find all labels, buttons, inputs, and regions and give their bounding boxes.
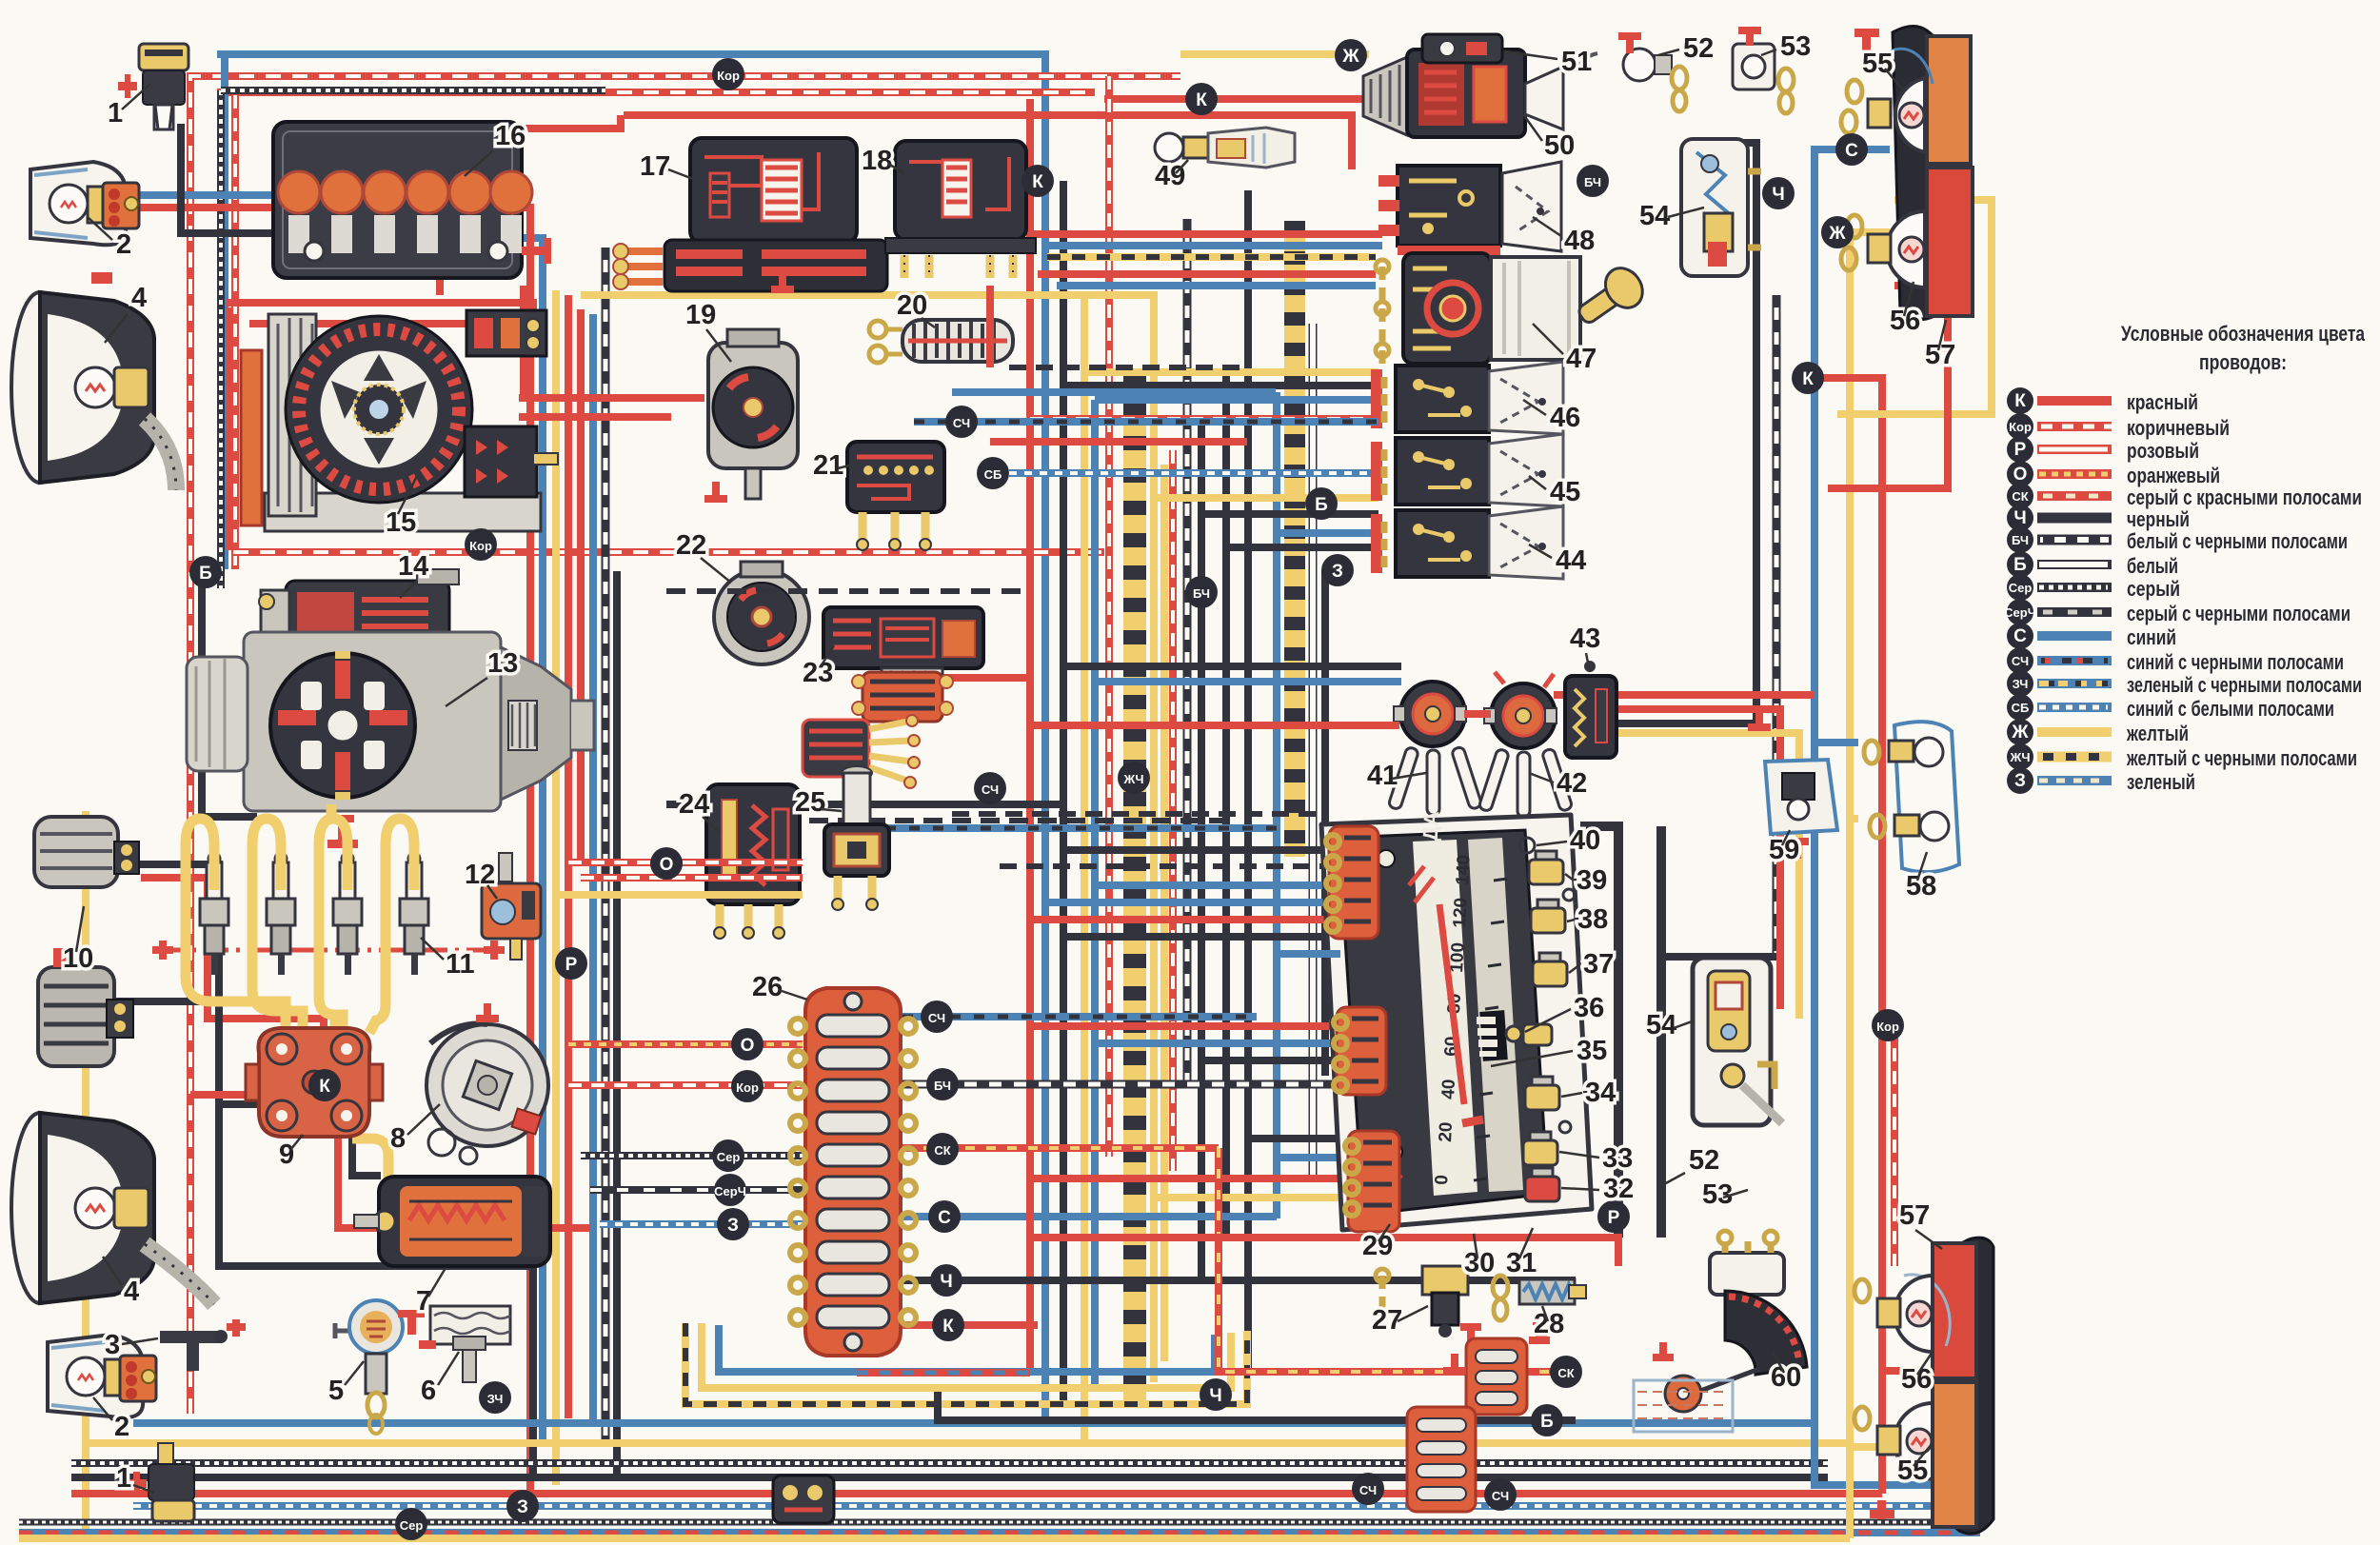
wire blue-black SCh y443: [914, 418, 1378, 426]
wire white-black center vertical: [1183, 219, 1192, 1085]
wire yellow-black U loop: [685, 1323, 1247, 1404]
side lamp 58: [1864, 722, 1959, 872]
svg-text:41: 41: [1367, 761, 1398, 791]
ground symbol top center: [771, 272, 794, 293]
node O center: [650, 847, 683, 880]
svg-text:22: 22: [676, 530, 706, 561]
wire white center vertical: [1309, 324, 1318, 1180]
wire cluster low bundle blue: [1277, 1154, 1340, 1161]
ground symbol cluster bottom: [1443, 1354, 1466, 1375]
svg-text:32: 32: [1603, 1174, 1634, 1204]
horn 10b: [38, 948, 133, 1066]
wire red mid-left vertical b: [565, 295, 572, 1418]
wire brown Kor horizontal: [568, 1081, 803, 1089]
svg-text:55: 55: [1897, 1456, 1928, 1486]
wire black bottom bus: [71, 1474, 1828, 1481]
wire red dash mid left b: [581, 874, 803, 881]
svg-text:44: 44: [1556, 545, 1586, 576]
node B center: [1305, 487, 1338, 520]
wire black right long vertical: [1618, 143, 1756, 723]
svg-text:красный: красный: [2127, 390, 2198, 414]
cluster connector stack middle: [1334, 1007, 1386, 1095]
svg-text:10: 10: [63, 943, 93, 974]
washer jet lamp 49: [1155, 128, 1295, 168]
svg-text:СК: СК: [2012, 489, 2028, 504]
distributor cap 9: [246, 1028, 383, 1137]
svg-text:СЧ: СЧ: [1359, 1483, 1377, 1497]
svg-text:120: 120: [1450, 898, 1472, 929]
svg-text:Ч: Ч: [2013, 508, 2026, 528]
svg-text:34: 34: [1585, 1078, 1616, 1108]
svg-text:Б: Б: [1315, 495, 1328, 515]
wire orange O horizontal: [568, 1040, 803, 1048]
wire red center vertical 1: [1026, 99, 1034, 1373]
bottom small connector: [773, 1476, 834, 1523]
svg-text:37: 37: [1583, 949, 1614, 980]
wire red from parking lamp to left long vertical: [124, 208, 530, 1494]
lamp 59: [1765, 760, 1837, 859]
svg-text:54: 54: [1639, 201, 1670, 231]
wire red generator frame: [226, 307, 233, 550]
svg-text:30: 30: [1464, 1248, 1495, 1278]
svg-text:20: 20: [1436, 1121, 1457, 1142]
svg-text:розовый: розовый: [2127, 439, 2199, 463]
wire yellow mid left: [556, 891, 803, 899]
wire yellow mid-left vertical: [552, 290, 560, 1485]
parking lamp 2 bottom: [48, 1335, 156, 1417]
wire red tail bottom feed: [1882, 1367, 1933, 1375]
svg-text:Ж: Ж: [1828, 224, 1846, 244]
svg-text:синий с белыми полосами: синий с белыми полосами: [2127, 697, 2334, 721]
wire red feed into relays 17: [519, 394, 704, 402]
svg-text:0: 0: [1432, 1175, 1453, 1186]
node BCh center: [1185, 576, 1218, 608]
wire yellow right staircase: [1837, 200, 1992, 414]
wire brown center vertical 2: [1169, 450, 1177, 1171]
wire red dash mid left a: [568, 859, 803, 866]
wire blue left vertical: [221, 57, 228, 569]
switch 44: [1371, 506, 1563, 579]
wiper motor 50 with switch 51: [1363, 34, 1563, 137]
fuel sender 60: [1634, 1231, 1807, 1432]
starter 13: [187, 632, 594, 848]
wire black horn run: [129, 864, 219, 1033]
wire red flasher feed: [1554, 691, 1815, 699]
svg-text:13: 13: [487, 648, 518, 679]
svg-text:З: З: [727, 1216, 739, 1236]
svg-text:желтый с черными полосами: желтый с черными полосами: [2126, 746, 2357, 770]
wire blue cluster bundle extra: [1277, 950, 1340, 958]
svg-text:Сер: Сер: [400, 1518, 424, 1533]
wire cluster left bundle black a: [1063, 846, 1340, 854]
svg-text:К: К: [319, 1077, 330, 1097]
wire harness layer: [86, 54, 1369, 1538]
svg-text:1: 1: [108, 98, 123, 129]
svg-text:53: 53: [1780, 31, 1811, 62]
svg-text:С: С: [2013, 626, 2027, 646]
wire yellow center vertical b: [581, 295, 1154, 1382]
wire black starter feed: [202, 571, 257, 817]
svg-text:4: 4: [124, 1277, 139, 1307]
wire blue center vertical 2: [1091, 400, 1099, 1390]
svg-text:57: 57: [1899, 1200, 1930, 1231]
svg-text:К: К: [1802, 369, 1814, 389]
svg-text:33: 33: [1602, 1143, 1633, 1174]
svg-text:50: 50: [1544, 130, 1575, 161]
switch 28: [1493, 1276, 1586, 1337]
wire yellow lamp58 feed: [1850, 815, 1858, 822]
wire black dash cluster top: [952, 811, 1328, 817]
wire black headlight bottom feed: [219, 1104, 533, 1477]
node Kor top: [712, 58, 744, 90]
relay 43: [1565, 661, 1616, 758]
wire yellow bottom bus b: [19, 1535, 1850, 1542]
wire yellow bottom bus a: [86, 1439, 1850, 1447]
ignition coil 7: [354, 1177, 550, 1266]
svg-text:ВОДА: ВОДА: [1417, 810, 1443, 872]
relay block bar under 17: [613, 240, 887, 291]
node SB center: [977, 457, 1009, 489]
svg-text:19: 19: [685, 300, 716, 330]
svg-text:58: 58: [1906, 871, 1936, 901]
body ground 6: [398, 1306, 510, 1382]
wire blue mid-left vertical: [589, 314, 597, 1423]
svg-text:7: 7: [416, 1286, 431, 1317]
svg-text:29: 29: [1362, 1231, 1393, 1261]
wire red headlight bottom feed: [190, 1095, 590, 1228]
wire blue top-right bundle b: [1057, 282, 1376, 289]
svg-text:З: З: [1332, 562, 1343, 582]
wire red right of flasher: [1464, 710, 1491, 718]
wire black mid-left vertical: [613, 571, 621, 1477]
wire black right of fuseblock: [902, 1277, 1576, 1284]
svg-text:21: 21: [813, 450, 843, 481]
svg-text:28: 28: [1534, 1309, 1564, 1339]
svg-text:55: 55: [1862, 49, 1893, 79]
legend row Ser: [2007, 574, 2180, 601]
svg-text:Сер: Сер: [2009, 581, 2033, 595]
HT lead starter stub: [327, 804, 337, 821]
wire gray crosshatch bottom bus: [19, 1519, 1980, 1526]
svg-text:К: К: [2014, 391, 2026, 411]
wire red feed pair: [519, 413, 671, 421]
svg-text:СК: СК: [1557, 1366, 1574, 1380]
HT lead plug2: [252, 819, 303, 1033]
wire brown center vertical: [1105, 76, 1113, 1157]
wire red relay17 drop: [520, 286, 527, 395]
relay 24: [706, 784, 800, 939]
heater motor 19: [708, 329, 798, 499]
svg-text:СЧ: СЧ: [953, 416, 970, 430]
svg-text:25: 25: [795, 787, 825, 818]
legend row Ch: [2007, 505, 2190, 531]
svg-text:Условные обозначения цвета: Условные обозначения цвета: [2121, 322, 2366, 346]
wire blue-black SCh right of fuseblock: [902, 1013, 1257, 1020]
horn button 5: [335, 1300, 403, 1434]
svg-text:40: 40: [1438, 1079, 1459, 1099]
svg-text:Ж: Ж: [2011, 723, 2029, 743]
wire gray hatch top horizontal: [221, 87, 605, 94]
cluster connector stack lower: [1345, 1131, 1399, 1232]
svg-text:Р: Р: [2014, 440, 2027, 460]
parking lamp 2 top: [30, 162, 139, 245]
svg-text:5: 5: [328, 1376, 344, 1406]
resistor 20: [869, 320, 1013, 363]
svg-text:1: 1: [116, 1463, 131, 1494]
headlight 4 top: [11, 272, 176, 490]
svg-text:С: С: [938, 1208, 951, 1228]
wire black relay bar to center: [666, 801, 1063, 808]
wire yellow U loop: [702, 1323, 1231, 1388]
wire yellow to switch stack: [1084, 368, 1378, 376]
wire gray hatch left vertical: [217, 90, 225, 588]
wire yellow right mid: [1576, 733, 1799, 1019]
wire yellow to switch stack b: [1154, 494, 1378, 502]
svg-text:оранжевый: оранжевый: [2127, 464, 2220, 487]
legend row ZCh: [2007, 670, 2362, 697]
svg-text:17: 17: [640, 151, 670, 182]
ignition switch 47: [1376, 253, 1650, 364]
relay 17: [690, 138, 857, 243]
svg-text:23: 23: [803, 658, 833, 688]
spark plugs 11: [152, 853, 505, 975]
wire brown second top run: [217, 89, 1095, 96]
wire red upper feed 2: [440, 115, 621, 295]
ground symbol near 28: [1529, 1325, 1550, 1344]
wire red dash to switch stack: [1030, 415, 1378, 423]
wire brown horizontal under generator: [233, 548, 1104, 556]
ground symbol near switch 25: [704, 482, 727, 503]
wire white-black right vertical: [1773, 295, 1781, 957]
svg-text:52: 52: [1683, 33, 1714, 64]
wire black center vertical 2: [1198, 419, 1205, 1280]
svg-text:51: 51: [1561, 47, 1592, 77]
wire color code badges layer: [189, 39, 1904, 1540]
bottom connector stack B: [1407, 1407, 1476, 1512]
svg-text:Кор: Кор: [736, 1080, 759, 1095]
svg-text:8: 8: [390, 1123, 406, 1154]
svg-text:БЧ: БЧ: [1584, 175, 1601, 189]
wire red flasher feed c: [1030, 722, 1399, 729]
svg-text:18: 18: [862, 146, 892, 176]
svg-text:СЧ: СЧ: [1492, 1489, 1509, 1503]
wire red sender feed: [1030, 1179, 1618, 1266]
svg-text:9: 9: [279, 1139, 294, 1170]
svg-text:серый с красными полосами: серый с красными полосами: [2127, 485, 2362, 509]
svg-text:О: О: [2013, 465, 2028, 485]
wire cluster left bundle black b: [1000, 863, 1340, 869]
door switch 54 bottom: [1693, 958, 1782, 1125]
svg-text:Ч: Ч: [940, 1272, 952, 1292]
turn flasher 41: [1388, 682, 1482, 828]
wire red y464: [990, 438, 1247, 446]
svg-text:35: 35: [1577, 1036, 1607, 1066]
wire black dash mid run: [724, 818, 1238, 823]
wire brown right vertical: [1891, 1025, 1898, 1266]
svg-text:зеленый с черными полосами: зеленый с черными полосами: [2127, 673, 2362, 697]
svg-text:БЧ: БЧ: [2012, 533, 2029, 547]
svg-text:С: С: [1845, 141, 1858, 161]
tail lamp bottom right: [1854, 1238, 1993, 1534]
node K fuseblock right: [932, 1309, 964, 1341]
svg-text:СК: СК: [934, 1143, 950, 1158]
svg-text:серый: серый: [2127, 577, 2180, 601]
wire black SK to bottom right: [1219, 1148, 1576, 1372]
wire cluster left bundle blue a: [1095, 881, 1340, 889]
wire blue to switch stack: [1095, 396, 1378, 404]
wire yellow-black dash top-right: [1047, 253, 1376, 261]
node K mid: [1021, 165, 1054, 197]
bottom connector stack A: [1466, 1338, 1527, 1415]
wire blue right of fuseblock: [902, 1213, 1277, 1220]
wire yellow center vertical: [1081, 291, 1088, 1443]
svg-text:синий: синий: [2127, 625, 2176, 649]
voltage regulator 23: [823, 607, 983, 687]
wire brown left pair vertical a: [231, 95, 239, 569]
wire red-blue dash bottom a: [857, 1369, 1030, 1377]
distributor 8: [426, 1003, 548, 1164]
wire cluster mid bundle red: [1030, 1022, 1340, 1030]
wire cluster mid bundle blue: [1095, 1040, 1340, 1047]
wire red relay18 drop: [986, 286, 994, 367]
svg-text:38: 38: [1577, 904, 1608, 935]
svg-text:Ч: Ч: [1209, 1386, 1221, 1406]
starter relay 14: [259, 569, 459, 664]
wire white-black BCh right of fuseblock: [902, 1080, 1333, 1089]
svg-text:ЖЧ: ЖЧ: [1122, 772, 1143, 786]
wire red right staircase: [1828, 286, 1948, 488]
wire blue from parking lamp stepped: [124, 195, 543, 1443]
svg-text:16: 16: [495, 121, 526, 151]
svg-text:36: 36: [1574, 993, 1604, 1023]
headlight 4 bottom: [11, 1113, 214, 1304]
node P right: [1597, 1200, 1630, 1233]
svg-text:11: 11: [446, 949, 475, 980]
svg-text:О: О: [660, 855, 674, 875]
node SCh bottom a: [1352, 1473, 1384, 1505]
legend row SerCh: [2004, 599, 2350, 625]
legend row K: [2007, 387, 2198, 414]
svg-text:СЧ: СЧ: [928, 1011, 945, 1025]
node Kor generator: [465, 528, 497, 561]
wire red right vertical: [1808, 378, 1882, 1494]
node Kor fuseblock: [731, 1070, 764, 1102]
wire cluster left bundle black c: [1063, 933, 1340, 941]
wire yellow tail bottom feed: [1850, 1443, 1933, 1451]
node Ch right: [1762, 177, 1795, 209]
svg-text:47: 47: [1566, 344, 1597, 374]
relay 18: [885, 141, 1036, 278]
svg-text:60: 60: [1771, 1362, 1801, 1393]
svg-text:Сер: Сер: [717, 1150, 741, 1164]
wire black to switch stack c: [1226, 544, 1378, 551]
wire red K right of fuseblock: [902, 1321, 1038, 1329]
svg-text:СБ: СБ: [2012, 701, 2030, 715]
wire red mid horizontals to cluster: [885, 674, 1030, 682]
svg-text:К: К: [1196, 90, 1207, 110]
svg-text:З: З: [517, 1497, 528, 1517]
lamp 53 top: [1733, 27, 1794, 113]
legend row P: [2007, 436, 2199, 463]
node SK fuseblock right: [926, 1133, 959, 1165]
wire yellow top right to wiper motor: [1180, 50, 1369, 58]
wire black center vertical 3: [1222, 366, 1230, 1238]
node ZhCh cable: [1118, 762, 1150, 794]
brake light switch 27: [1376, 1266, 1481, 1344]
node S fuseblock right: [928, 1200, 961, 1233]
svg-text:БЧ: БЧ: [934, 1079, 951, 1093]
svg-text:ЗЧ: ЗЧ: [487, 1392, 504, 1406]
wire cluster left bundle blue b: [1045, 899, 1340, 906]
fuse box 16: [273, 122, 551, 278]
generator 15: [241, 310, 558, 531]
wire red SK right of fuseblock: [902, 1144, 1219, 1152]
lamp 1 top: [118, 44, 188, 129]
svg-text:54: 54: [1646, 1010, 1676, 1040]
svg-text:желтый: желтый: [2126, 722, 2189, 745]
wire red flasher feed b: [1571, 709, 1780, 1009]
tail lamp top right: [1841, 26, 1973, 320]
wire red bottom bus: [71, 1490, 1882, 1497]
svg-text:15: 15: [386, 507, 416, 538]
svg-text:140: 140: [1453, 855, 1475, 886]
node BCh right: [1577, 165, 1609, 197]
instrument cluster body 29-31: [1321, 810, 1592, 1230]
wire blue top bus to center vertical: [217, 54, 1045, 1423]
svg-text:40: 40: [1570, 825, 1600, 856]
ground symbol near flasher 42: [1748, 710, 1771, 731]
svg-text:серый с черными полосами: серый с черными полосами: [2127, 602, 2350, 625]
wire gray Ser horizontal: [581, 1152, 803, 1159]
wire yellow-black thick cable 1: [1123, 371, 1146, 1407]
connector fan to ignition: [803, 715, 920, 788]
svg-text:СБ: СБ: [984, 467, 1002, 482]
svg-text:53: 53: [1702, 1179, 1733, 1210]
svg-text:К: К: [1032, 172, 1043, 192]
wire brown(Kor) left vertical + top bus: [190, 76, 1180, 1414]
legend row B: [2007, 551, 2178, 578]
node Kor bottom right: [1872, 1009, 1904, 1041]
wire blue flasher feed: [1095, 678, 1401, 685]
svg-text:49: 49: [1155, 161, 1185, 191]
node Ser bottom: [395, 1508, 427, 1540]
svg-text:2: 2: [114, 1412, 129, 1442]
svg-text:З: З: [2014, 771, 2026, 791]
svg-text:26: 26: [752, 972, 783, 1002]
wire blue-red dash bottom bus: [19, 1529, 1980, 1536]
legend row BCh: [2007, 526, 2348, 553]
switch 46: [1371, 362, 1563, 434]
indicator lamps 32-40: [1506, 838, 1575, 1201]
svg-text:2: 2: [116, 229, 131, 260]
wire yellow bottom-left vertical: [82, 811, 89, 1538]
svg-text:Ч: Ч: [1772, 185, 1784, 205]
legend row ZhCh: [2007, 743, 2357, 770]
connector block 6pin: [852, 672, 953, 722]
lamp 52 top: [1577, 32, 1687, 111]
node Ch bottom: [1200, 1378, 1232, 1411]
svg-text:Б: Б: [1540, 1412, 1554, 1432]
node B left: [189, 556, 222, 588]
ground symbol sender: [1653, 1342, 1674, 1361]
svg-text:Кор: Кор: [1876, 1020, 1899, 1034]
wire white-black mid-left vertical: [602, 248, 610, 1447]
node Z fuseblock: [717, 1208, 749, 1240]
connector 3: [160, 1319, 246, 1371]
wire red K to wiper motor: [1104, 95, 1369, 103]
svg-text:39: 39: [1577, 865, 1607, 896]
svg-text:Р: Р: [1608, 1208, 1620, 1228]
